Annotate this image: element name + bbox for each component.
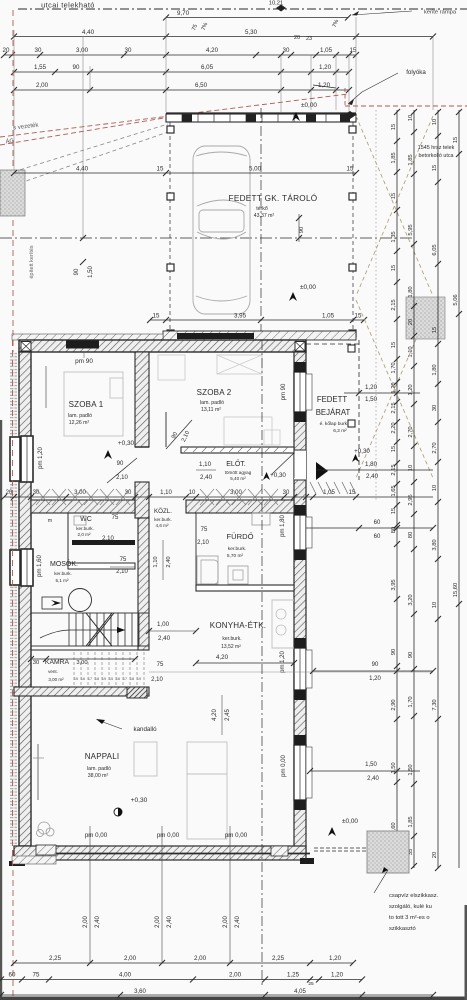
svg-text:4,00: 4,00 [119, 972, 132, 979]
svg-text:folyóka: folyóka [406, 69, 426, 76]
svg-text:90: 90 [372, 662, 379, 668]
svg-text:szikkasztó: szikkasztó [389, 926, 416, 932]
left wall outer ladder band [10, 352, 17, 846]
svg-text:15: 15 [453, 137, 459, 143]
svg-text:90: 90 [408, 652, 414, 658]
svg-text:1,50: 1,50 [365, 762, 377, 768]
window W5 furdo (pm 1,80) [294, 515, 306, 550]
svg-text:1,20: 1,20 [318, 82, 331, 89]
svg-text:2,90: 2,90 [391, 699, 397, 710]
dim row 9,70 [166, 17, 348, 19]
svg-text:6,2 m²: 6,2 m² [333, 428, 347, 434]
svg-text:±0,00: ±0,00 [301, 102, 317, 109]
svg-text:90: 90 [299, 227, 305, 233]
svg-text:15: 15 [391, 124, 397, 130]
svg-text:1,85: 1,85 [408, 816, 414, 827]
svg-text:2,15: 2,15 [391, 402, 397, 413]
svg-text:5,06: 5,06 [453, 294, 459, 305]
svg-text:kandalló: kandalló [133, 726, 157, 733]
svg-text:30: 30 [35, 47, 42, 54]
svg-text:20: 20 [3, 47, 10, 54]
wall furdo south [196, 585, 294, 591]
svg-text:1,20: 1,20 [331, 972, 344, 979]
garage posts [167, 126, 174, 133]
stairs [31, 613, 149, 646]
svg-text:3,95: 3,95 [391, 579, 397, 590]
svg-text:1,10: 1,10 [408, 346, 414, 357]
svg-text:3,60: 3,60 [134, 989, 146, 995]
svg-text:2,95: 2,95 [408, 494, 414, 505]
svg-text:80: 80 [408, 532, 414, 538]
svg-text:1,85: 1,85 [391, 152, 397, 163]
svg-text:2,10: 2,10 [116, 475, 128, 481]
svg-text:6,05: 6,05 [432, 244, 438, 255]
svg-text:90: 90 [117, 461, 124, 467]
svg-text:pm 1,20: pm 1,20 [38, 447, 44, 469]
wall H1 furdo north [186, 500, 294, 513]
svg-text:2,00: 2,00 [124, 955, 137, 962]
svg-text:2,70: 2,70 [432, 442, 438, 453]
garage bottom beam (building top strip) [163, 331, 356, 340]
svg-text:10: 10 [432, 119, 438, 125]
svg-text:1,70: 1,70 [391, 362, 397, 373]
svg-text:to tott 3 m²-es o: to tott 3 m²-es o [389, 915, 430, 921]
svg-text:+0,30: +0,30 [131, 797, 148, 804]
svg-text:15: 15 [391, 265, 397, 271]
entry arrow [316, 462, 328, 480]
window W6 konyha (pm 1,20) [294, 648, 306, 690]
nappali radiator line [37, 744, 39, 800]
extension verticals top [165, 17, 167, 112]
svg-text:5,95: 5,95 [408, 224, 414, 235]
svg-text:1,50: 1,50 [365, 396, 378, 403]
svg-text:2,40: 2,40 [167, 916, 173, 928]
kamra bottom wall [14, 687, 149, 696]
svg-text:2,00: 2,00 [155, 916, 161, 928]
entry steps hatch [310, 482, 316, 494]
svg-text:15: 15 [432, 327, 438, 333]
svg-text:15: 15 [74, 677, 78, 681]
svg-text:KAMRA: KAMRA [45, 659, 70, 666]
svg-text:30: 30 [283, 490, 290, 496]
dashed drain line to pit [314, 847, 367, 849]
svg-text:1,80: 1,80 [408, 286, 414, 297]
bottom wall [14, 846, 306, 860]
extension verticals below building [89, 826, 91, 963]
svg-text:2,40: 2,40 [166, 556, 172, 567]
svg-text:1,50: 1,50 [408, 764, 414, 775]
svg-text:vent.: vent. [48, 669, 58, 674]
garage top beam [166, 114, 356, 122]
dim row 4,40 / 5,30 [14, 36, 433, 38]
svg-text:FÜRDŐ: FÜRDŐ [227, 532, 254, 541]
svg-text:1,25: 1,25 [287, 972, 300, 979]
svg-text:7,30: 7,30 [432, 699, 438, 710]
svg-text:60: 60 [9, 972, 16, 979]
svg-text:5,30: 5,30 [245, 29, 258, 36]
svg-text:2,00: 2,00 [83, 916, 89, 928]
svg-text:19: 19 [102, 677, 106, 681]
garage axis dash-dot vertical [260, 108, 262, 340]
step block left [36, 845, 56, 855]
svg-text:15: 15 [355, 313, 362, 320]
svg-text:4,6 m²: 4,6 m² [155, 523, 168, 528]
svg-text:12,26 m²: 12,26 m² [69, 420, 90, 426]
svg-text:2,10: 2,10 [116, 569, 128, 575]
svg-text:betorkolló utca: betorkolló utca [418, 153, 453, 159]
diamond marker on property line [276, 5, 286, 12]
svg-text:2,00: 2,00 [194, 955, 207, 962]
door leaf elotér [272, 453, 294, 474]
svg-text:2,70: 2,70 [408, 426, 414, 437]
svg-text:1,85: 1,85 [408, 154, 414, 165]
svg-text:10: 10 [408, 115, 414, 121]
svg-text:lam. padló: lam. padló [87, 766, 111, 772]
red dashed utility line 1 [0, 94, 348, 137]
svg-text:2,20: 2,20 [391, 422, 397, 433]
svg-text:60: 60 [374, 520, 381, 526]
scan edge left [0, 420, 2, 1000]
dim 60/60 row [306, 527, 433, 529]
svg-text:lam. padló: lam. padló [200, 400, 224, 406]
dim row 4,40 / 5,00 (garage) [14, 172, 356, 174]
small box with arrow [42, 597, 62, 609]
svg-text:2,40: 2,40 [235, 916, 241, 928]
red vertical + horizontal near folyoka [344, 88, 346, 107]
svg-text:38,00 m²: 38,00 m² [88, 773, 109, 779]
dim row 1,55/90/6,05/1,20 [14, 71, 349, 73]
svg-text:épített kerítés: épített kerítés [29, 245, 35, 279]
svg-text:1,20: 1,20 [391, 382, 397, 393]
gray block right (folyoka pit) [406, 297, 445, 339]
dim 1,50/2,40 row [310, 770, 420, 772]
svg-text:10: 10 [432, 602, 438, 608]
left wall [19, 352, 31, 846]
szoba2 furniture [158, 355, 185, 380]
svg-text:KONYHA-ÉTK.: KONYHA-ÉTK. [210, 621, 266, 630]
szoba1 radiator line [45, 366, 47, 408]
terrace door W7 nappali [294, 745, 306, 800]
svg-text:90: 90 [73, 64, 80, 71]
svg-text:2,25: 2,25 [272, 955, 285, 962]
svg-text:15: 15 [349, 490, 356, 496]
svg-text:60: 60 [374, 534, 381, 540]
svg-text:2,0 m²: 2,0 m² [77, 532, 90, 537]
svg-text:1,70: 1,70 [408, 696, 414, 707]
svg-text:BEJÁRAT: BEJÁRAT [316, 408, 351, 417]
svg-text:pm 0,00: pm 0,00 [225, 832, 248, 839]
dimension chain D (totals) [458, 110, 460, 868]
svg-text:20: 20 [294, 35, 300, 41]
nappali furniture [134, 742, 157, 776]
svg-text:pm 0,00: pm 0,00 [157, 832, 180, 839]
svg-text:6,05: 6,05 [201, 64, 214, 71]
svg-text:16: 16 [81, 677, 85, 681]
gray block left edge [0, 170, 25, 216]
svg-text:18: 18 [95, 677, 99, 681]
svg-text:pm 90: pm 90 [75, 358, 93, 365]
svg-text:MOSÓK.: MOSÓK. [50, 559, 78, 568]
svg-text:17: 17 [123, 677, 127, 681]
svg-text:20: 20 [6, 490, 13, 496]
svg-text:pm 1,80: pm 1,80 [280, 515, 286, 537]
svg-text:±0,00: ±0,00 [300, 284, 316, 291]
svg-text:1,55: 1,55 [34, 64, 47, 71]
svg-text:FEDETT: FEDETT [317, 395, 348, 404]
svg-text:10: 10 [189, 490, 196, 496]
svg-text:NAPPALI: NAPPALI [85, 752, 120, 761]
svg-text:1,20: 1,20 [319, 64, 332, 71]
svg-text:±0,00: ±0,00 [342, 818, 358, 825]
svg-text:90: 90 [74, 268, 80, 275]
svg-text:1,35: 1,35 [391, 231, 397, 242]
red property line overlay [12, 340, 14, 870]
bottom dim row 1 [14, 962, 353, 964]
svg-text:tömött agyag: tömött agyag [225, 470, 252, 475]
interior dim chain y497 [4, 496, 433, 498]
svg-text:6,50: 6,50 [195, 82, 208, 89]
svg-text:ker.burk.: ker.burk. [222, 636, 241, 642]
svg-text:90: 90 [391, 649, 397, 655]
svg-text:18: 18 [130, 677, 134, 681]
svg-text:2,10: 2,10 [102, 536, 114, 542]
svg-text:20: 20 [432, 852, 438, 858]
svg-text:4,20: 4,20 [206, 47, 219, 54]
insulation strip above top wall [12, 334, 163, 340]
svg-text:+0,30: +0,30 [270, 472, 286, 479]
svg-text:3,00: 3,00 [76, 47, 89, 54]
dim 90/1,20 row [313, 670, 433, 672]
svg-text:16: 16 [116, 677, 120, 681]
terrace edge line [56, 853, 310, 855]
svg-text:2,00: 2,00 [36, 82, 49, 89]
svg-text:lam. padló: lam. padló [68, 413, 92, 419]
svg-text:1,50: 1,50 [88, 266, 94, 278]
svg-text:1545 hrsz telek: 1545 hrsz telek [418, 145, 455, 151]
svg-text:2,40: 2,40 [200, 474, 213, 481]
garage bottom dim row 3,95/1,05 [150, 319, 364, 321]
svg-text:1,05: 1,05 [322, 313, 335, 320]
wall V2 mosok/stairs right [138, 518, 149, 650]
svg-text:10: 10 [432, 485, 438, 491]
svg-text:25: 25 [308, 981, 314, 987]
svg-text:SZOBA 1: SZOBA 1 [69, 400, 104, 409]
svg-text:4,20: 4,20 [216, 654, 229, 661]
wc walls [67, 513, 69, 566]
property line (utcai telekhatar) [18, 8, 467, 10]
svg-text:1,80: 1,80 [432, 364, 438, 375]
svg-text:19: 19 [137, 677, 141, 681]
washing machine circle [69, 589, 92, 612]
svg-text:1,05: 1,05 [323, 490, 335, 496]
leader to text [374, 870, 388, 893]
svg-text:4,20: 4,20 [212, 709, 218, 721]
svg-text:17: 17 [88, 677, 92, 681]
svg-text:1,10: 1,10 [199, 461, 212, 468]
kamra top line [31, 649, 149, 651]
svg-text:13,11 m²: 13,11 m² [201, 407, 221, 413]
dim row 2,00/6,50/1,20 [14, 89, 349, 91]
top wall window lintel pm90 [66, 341, 99, 349]
svg-text:+0,30: +0,30 [354, 448, 370, 455]
svg-text:15,60: 15,60 [453, 583, 459, 598]
svg-text:pm 0,00: pm 0,00 [281, 755, 287, 777]
svg-text:1,20: 1,20 [369, 676, 381, 682]
svg-text:4,40: 4,40 [76, 166, 89, 173]
svg-text:13,52 m²: 13,52 m² [221, 644, 241, 650]
svg-text:2,25: 2,25 [49, 955, 62, 962]
svg-text:+0,30: +0,30 [118, 440, 135, 447]
svg-text:15: 15 [109, 677, 113, 681]
svg-text:30: 30 [33, 490, 40, 496]
dimension chain B [413, 110, 415, 868]
svg-text:KÖZL.: KÖZL. [154, 508, 172, 515]
right wall [294, 352, 306, 852]
svg-text:térkő: térkő [256, 206, 268, 212]
svg-text:30: 30 [33, 660, 39, 666]
svg-text:1,20: 1,20 [365, 384, 378, 391]
svg-text:75: 75 [112, 515, 119, 521]
bottom dim row 3 (cut) [1, 994, 433, 996]
svg-text:5,40 m²: 5,40 m² [230, 476, 246, 481]
svg-text:75: 75 [33, 972, 40, 979]
car in carport [193, 146, 250, 314]
svg-text:15: 15 [432, 165, 438, 171]
top wall [19, 340, 306, 352]
svg-text:75: 75 [120, 557, 127, 563]
svg-text:1,00: 1,00 [157, 621, 170, 628]
svg-text:csapvíz elszikkasz.: csapvíz elszikkasz. [389, 893, 439, 899]
gray driveway dashed lines [0, 124, 168, 176]
svg-text:ker.burk.: ker.burk. [154, 517, 172, 522]
window W1 szoba1 (pm 1,20) [10, 437, 20, 481]
svg-text:m: m [48, 518, 52, 524]
svg-text:43,37 m²: 43,37 m² [254, 213, 275, 219]
svg-text:5,1 m²: 5,1 m² [55, 578, 68, 583]
svg-text:30: 30 [125, 47, 132, 54]
corner box right [295, 342, 305, 352]
svg-text:3,00 m²: 3,00 m² [48, 677, 64, 682]
window W4 szoba2 (pm 90) [294, 372, 306, 412]
svg-text:20: 20 [408, 319, 414, 325]
axis dash-dot horizontal [0, 237, 414, 239]
bottom dim row 2 [1, 979, 362, 981]
stairs dashed below (kamra) [73, 652, 75, 686]
svg-text:23: 23 [306, 36, 312, 42]
svg-text:kerité rámpa: kerité rámpa [424, 10, 457, 16]
soak pit gray block [367, 831, 409, 873]
svg-text:1,20: 1,20 [408, 384, 414, 395]
svg-text:1,05: 1,05 [320, 47, 333, 54]
svg-text:4,40: 4,40 [82, 29, 95, 36]
garage dashed side lines [169, 122, 171, 334]
svg-text:ELŐT.: ELŐT. [226, 459, 246, 468]
svg-text:utcai telekható: utcai telekható [41, 1, 95, 10]
svg-text:3,20: 3,20 [408, 594, 414, 605]
svg-text:ker.burk.: ker.burk. [228, 546, 246, 552]
svg-text:FEDETT GK. TÁROLÓ: FEDETT GK. TÁROLÓ [229, 193, 318, 203]
svg-text:1,10: 1,10 [153, 556, 159, 567]
svg-text:3,80: 3,80 [432, 539, 438, 550]
szoba2 door swing [166, 420, 192, 449]
svg-text:75: 75 [201, 527, 208, 533]
scan edge right bottom [465, 905, 467, 1000]
svg-text:pm 90: pm 90 [281, 383, 287, 400]
svg-text:15: 15 [391, 446, 397, 452]
svg-text:é. kőlap burk.: é. kőlap burk. [320, 421, 349, 427]
svg-text:4,05: 4,05 [294, 989, 306, 995]
red dashed utility line 2 [0, 117, 170, 145]
bath fixtures [197, 556, 218, 584]
chimney block [127, 687, 147, 698]
svg-text:2,40: 2,40 [366, 473, 379, 480]
svg-text:1,65: 1,65 [391, 485, 397, 496]
plant [38, 822, 50, 834]
svg-text:pm 1,20: pm 1,20 [280, 651, 286, 673]
svg-text:15: 15 [391, 193, 397, 199]
svg-text:2,40: 2,40 [367, 776, 379, 782]
svg-text:2,10: 2,10 [197, 540, 209, 546]
svg-text:30: 30 [432, 405, 438, 411]
svg-text:1,20: 1,20 [329, 955, 342, 962]
svg-text:9,70: 9,70 [177, 10, 190, 17]
svg-text:15: 15 [391, 508, 397, 514]
scan edge bottom [0, 997, 467, 1000]
window W2 mosok (pm 1,60) [10, 550, 20, 585]
main entrance door gap [294, 450, 306, 480]
svg-text:pm 0,00: pm 0,00 [85, 832, 108, 839]
svg-text:30: 30 [283, 47, 290, 54]
svg-text:3,00: 3,00 [76, 660, 87, 666]
svg-text:75: 75 [157, 662, 164, 668]
svg-text:2,40: 2,40 [95, 916, 101, 928]
svg-text:2,10: 2,10 [151, 677, 163, 683]
szoba2 south partition [181, 447, 294, 453]
svg-text:5,70 m²: 5,70 m² [227, 553, 244, 559]
dimension chain A [396, 110, 398, 868]
dimension chain C [437, 110, 439, 868]
svg-text:1,80: 1,80 [365, 461, 378, 468]
diamond marker garage top right [344, 111, 356, 119]
svg-text:5,00: 5,00 [249, 166, 262, 173]
svg-text:3,95: 3,95 [234, 313, 247, 320]
svg-text:15: 15 [347, 166, 354, 173]
red dashed sight diagonals right [356, 116, 433, 296]
szoba1 furniture [64, 372, 123, 436]
wall H1 szoba1 south [31, 500, 135, 513]
FEDETT BEJARAT dashed outline [358, 340, 360, 480]
svg-text:2,15: 2,15 [391, 299, 397, 310]
wall V1 szoba1/szoba2 [135, 352, 149, 447]
svg-text:2,00: 2,00 [223, 916, 229, 928]
svg-text:ker.burk.: ker.burk. [76, 526, 94, 531]
svg-text:1,10: 1,10 [160, 490, 172, 496]
svg-text:SZOBA 2: SZOBA 2 [197, 388, 232, 397]
svg-text:2,45: 2,45 [225, 709, 231, 721]
svg-text:szolgáló, kulé ku: szolgáló, kulé ku [389, 904, 432, 910]
svg-text:2,40: 2,40 [158, 635, 171, 642]
left property red dashed vertical [12, 10, 14, 996]
svg-text:pm 1,60: pm 1,60 [37, 555, 43, 577]
svg-text:15: 15 [391, 342, 397, 348]
dotted vertical x375 [375, 110, 377, 500]
corner box left [21, 342, 31, 352]
step block right corner [271, 846, 288, 856]
svg-text:15: 15 [157, 166, 164, 173]
svg-text:15: 15 [153, 313, 160, 320]
svg-text:2,00: 2,00 [229, 972, 242, 979]
kitchen counter [272, 600, 294, 648]
